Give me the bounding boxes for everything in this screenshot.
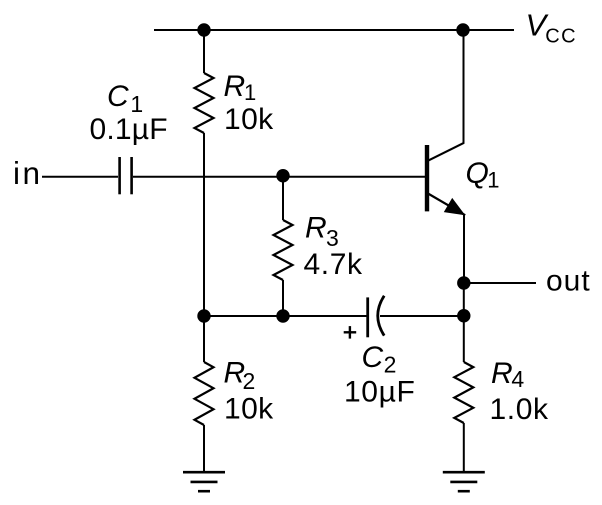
wire R2 bottom lead <box>203 425 205 472</box>
svg-text:4.7k: 4.7k <box>304 248 364 281</box>
wire emitter node to lower junction <box>463 283 465 316</box>
label C1 <box>107 80 143 117</box>
svg-text:R: R <box>305 211 327 244</box>
capacitor C1 <box>120 157 132 194</box>
svg-text:Q: Q <box>466 157 489 190</box>
svg-text:10k: 10k <box>224 392 274 425</box>
svg-text:in: in <box>13 155 43 191</box>
wire R1 bottom lead down to lower node <box>203 133 205 316</box>
node R2 junction <box>197 309 210 322</box>
svg-text:CC: CC <box>545 25 577 47</box>
wire out lead <box>464 282 536 284</box>
label R1 <box>224 70 257 105</box>
svg-text:C: C <box>362 341 384 374</box>
svg-text:4: 4 <box>511 366 524 392</box>
svg-text:1.0k: 1.0k <box>490 393 550 426</box>
ground right <box>443 472 485 491</box>
resistor R3 <box>274 220 293 280</box>
svg-text:1: 1 <box>487 168 499 193</box>
node base-R3 junction <box>276 169 289 182</box>
svg-text:10µF: 10µF <box>344 376 415 409</box>
label R4 <box>491 357 524 392</box>
wire VCC rail <box>154 29 514 31</box>
wire bottom feedback wire right segment <box>380 315 464 317</box>
label VCC <box>526 7 577 47</box>
node VCC-collector junction <box>456 23 469 36</box>
svg-text:C: C <box>107 80 129 113</box>
wire R1 top lead <box>203 30 205 73</box>
svg-text:R: R <box>491 357 513 390</box>
capacitor C2 <box>368 296 385 338</box>
wire R3 bottom lead <box>282 280 284 316</box>
wire R3 top lead <box>282 176 284 220</box>
resistor R2 <box>195 362 214 425</box>
wire input lead <box>42 176 118 178</box>
label Q1 <box>466 157 500 193</box>
node VCC-R1 junction <box>197 23 210 36</box>
wire R2 top lead <box>203 316 205 362</box>
node out junction <box>457 276 470 289</box>
node C2-R4 junction <box>457 309 470 322</box>
label + polarity <box>344 326 357 339</box>
svg-text:2: 2 <box>384 351 397 377</box>
svg-text:R: R <box>224 70 246 103</box>
resistor R4 <box>454 362 473 423</box>
ground left <box>183 472 225 491</box>
transistor Q1 <box>427 143 465 215</box>
wire R4 bottom lead <box>463 423 465 472</box>
wire emitter lead <box>463 215 465 284</box>
wire bottom feedback wire left segment <box>204 315 367 317</box>
node R3-bottom junction <box>276 309 289 322</box>
label R3 <box>305 211 339 251</box>
label R2 <box>224 356 256 394</box>
wire base wire <box>133 176 425 178</box>
wire R4 top lead <box>463 316 465 362</box>
svg-text:1: 1 <box>244 80 256 105</box>
label C2 <box>362 341 397 378</box>
svg-text:10k: 10k <box>224 103 274 136</box>
svg-text:2: 2 <box>243 368 256 394</box>
resistor R1 <box>195 73 214 133</box>
svg-text:out: out <box>546 265 591 298</box>
wire collector lead <box>463 30 465 144</box>
svg-text:0.1µF: 0.1µF <box>90 113 168 146</box>
